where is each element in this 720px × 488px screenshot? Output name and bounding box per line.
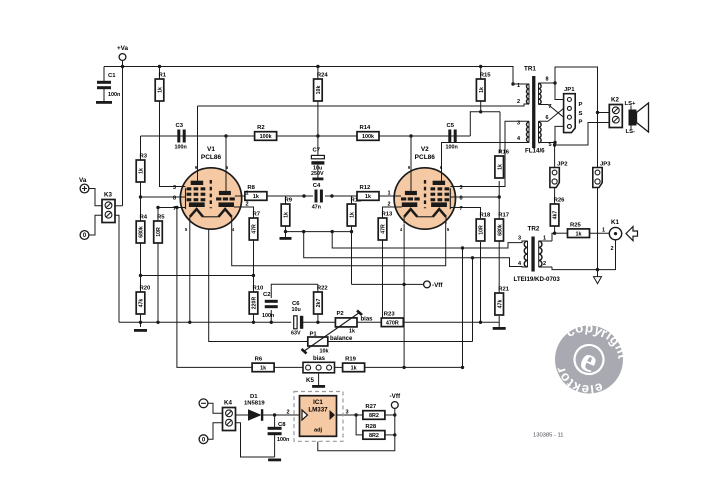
svg-text:R19: R19 bbox=[345, 357, 357, 363]
svg-text:+Va: +Va bbox=[117, 45, 129, 52]
svg-text:-Vff: -Vff bbox=[432, 282, 443, 289]
svg-text:R16: R16 bbox=[498, 150, 510, 156]
svg-text:3: 3 bbox=[517, 121, 520, 127]
svg-text:R26: R26 bbox=[554, 198, 566, 204]
svg-text:6: 6 bbox=[546, 115, 549, 121]
svg-text:PCL86: PCL86 bbox=[201, 154, 222, 161]
svg-text:2k7: 2k7 bbox=[316, 299, 322, 308]
svg-text:K5: K5 bbox=[306, 377, 314, 384]
svg-text:bias: bias bbox=[361, 317, 374, 323]
svg-text:K2: K2 bbox=[611, 97, 619, 104]
svg-text:R5: R5 bbox=[157, 215, 165, 221]
svg-text:10u: 10u bbox=[292, 307, 301, 313]
svg-text:R8: R8 bbox=[247, 185, 255, 191]
svg-text:1k: 1k bbox=[479, 87, 485, 93]
svg-text:R18: R18 bbox=[480, 213, 492, 219]
svg-text:63V: 63V bbox=[291, 331, 301, 337]
svg-text:1: 1 bbox=[517, 83, 520, 89]
svg-text:V2: V2 bbox=[421, 146, 429, 153]
svg-text:R2: R2 bbox=[257, 125, 265, 131]
svg-text:R25: R25 bbox=[570, 222, 582, 228]
svg-text:P1: P1 bbox=[310, 332, 318, 338]
svg-text:JP2: JP2 bbox=[557, 162, 568, 168]
svg-text:1k: 1k bbox=[351, 366, 357, 372]
svg-text:3: 3 bbox=[460, 185, 463, 191]
svg-text:2: 2 bbox=[286, 410, 289, 416]
svg-text:8: 8 bbox=[546, 77, 549, 83]
svg-text:1: 1 bbox=[387, 191, 390, 197]
svg-text:1k: 1k bbox=[260, 366, 266, 372]
svg-text:-Vff: -Vff bbox=[390, 393, 401, 400]
svg-text:1: 1 bbox=[543, 236, 546, 242]
svg-text:7: 7 bbox=[173, 206, 176, 212]
svg-text:R9: R9 bbox=[285, 198, 293, 204]
svg-text:1N5819: 1N5819 bbox=[244, 401, 265, 407]
svg-text:680k: 680k bbox=[139, 226, 145, 238]
svg-text:LS+: LS+ bbox=[625, 101, 637, 107]
svg-text:8: 8 bbox=[460, 196, 463, 202]
svg-text:100n: 100n bbox=[277, 437, 289, 443]
svg-text:R4: R4 bbox=[140, 215, 148, 221]
svg-text:JP1: JP1 bbox=[564, 87, 575, 93]
svg-text:1: 1 bbox=[602, 228, 605, 234]
svg-text:P: P bbox=[579, 102, 583, 108]
svg-text:2: 2 bbox=[246, 202, 249, 208]
svg-text:R15: R15 bbox=[480, 73, 492, 79]
svg-text:8: 8 bbox=[173, 196, 176, 202]
svg-text:1k: 1k bbox=[253, 194, 259, 200]
svg-text:R6: R6 bbox=[255, 357, 263, 363]
svg-text:1k: 1k bbox=[497, 164, 503, 170]
svg-text:FL14/6: FL14/6 bbox=[525, 148, 545, 155]
svg-text:R12: R12 bbox=[360, 185, 372, 191]
svg-text:1k: 1k bbox=[365, 194, 371, 200]
svg-text:C1: C1 bbox=[108, 73, 116, 79]
svg-text:2: 2 bbox=[517, 99, 520, 105]
svg-text:680k: 680k bbox=[497, 224, 503, 236]
svg-text:IC1: IC1 bbox=[313, 399, 323, 406]
svg-text:1k: 1k bbox=[349, 329, 355, 335]
svg-text:1k: 1k bbox=[284, 212, 290, 218]
svg-text:adj: adj bbox=[314, 428, 323, 434]
svg-text:4k7: 4k7 bbox=[553, 211, 559, 220]
svg-text:1: 1 bbox=[246, 191, 249, 197]
svg-text:5: 5 bbox=[549, 142, 552, 148]
svg-text:47R: 47R bbox=[252, 224, 258, 234]
svg-text:C5: C5 bbox=[447, 123, 455, 129]
svg-text:220R: 220R bbox=[252, 297, 258, 310]
svg-text:P2: P2 bbox=[337, 311, 345, 317]
svg-text:R20: R20 bbox=[140, 286, 152, 292]
svg-text:100k: 100k bbox=[260, 134, 272, 140]
svg-text:47k: 47k bbox=[497, 300, 503, 309]
svg-text:R22: R22 bbox=[317, 286, 329, 292]
svg-text:R17: R17 bbox=[498, 213, 510, 219]
svg-text:C7: C7 bbox=[313, 148, 321, 154]
svg-text:V1: V1 bbox=[207, 146, 215, 153]
svg-text:7: 7 bbox=[460, 206, 463, 212]
svg-text:K4: K4 bbox=[224, 400, 232, 407]
svg-text:C2: C2 bbox=[263, 292, 271, 298]
svg-text:C4: C4 bbox=[313, 183, 321, 189]
svg-text:130385 - 11: 130385 - 11 bbox=[533, 433, 564, 439]
svg-text:10R: 10R bbox=[156, 227, 162, 237]
svg-text:LM337: LM337 bbox=[308, 407, 328, 414]
svg-text:R10: R10 bbox=[253, 286, 265, 292]
svg-text:10k: 10k bbox=[316, 86, 322, 95]
svg-text:R24: R24 bbox=[317, 73, 329, 79]
svg-text:TR2: TR2 bbox=[528, 226, 540, 233]
svg-text:LS-: LS- bbox=[626, 129, 636, 135]
svg-text:8R2: 8R2 bbox=[369, 433, 379, 439]
svg-text:R7: R7 bbox=[253, 212, 261, 218]
svg-text:3: 3 bbox=[173, 185, 176, 191]
svg-text:47R: 47R bbox=[381, 224, 387, 234]
svg-text:100n: 100n bbox=[446, 145, 458, 151]
svg-text:8R2: 8R2 bbox=[369, 413, 379, 419]
svg-text:47k: 47k bbox=[139, 299, 145, 308]
svg-text:100n: 100n bbox=[262, 313, 274, 319]
svg-text:R14: R14 bbox=[360, 125, 372, 131]
svg-text:100n: 100n bbox=[108, 92, 120, 98]
svg-text:R1: R1 bbox=[159, 73, 167, 79]
svg-text:balance: balance bbox=[330, 336, 353, 342]
svg-text:R23: R23 bbox=[384, 312, 396, 318]
svg-text:7: 7 bbox=[549, 104, 552, 110]
svg-text:10k: 10k bbox=[320, 349, 329, 355]
svg-text:PCL86: PCL86 bbox=[415, 154, 436, 161]
svg-text:C8: C8 bbox=[278, 422, 286, 428]
svg-text:D1: D1 bbox=[250, 394, 258, 400]
svg-text:K3: K3 bbox=[104, 192, 112, 199]
svg-text:2: 2 bbox=[387, 202, 390, 208]
svg-text:250V: 250V bbox=[311, 171, 324, 177]
svg-text:10R: 10R bbox=[479, 225, 485, 235]
svg-text:Va: Va bbox=[79, 177, 87, 184]
svg-text:R3: R3 bbox=[140, 154, 148, 160]
svg-text:470R: 470R bbox=[386, 321, 399, 327]
svg-text:R13: R13 bbox=[382, 212, 394, 218]
svg-text:1k: 1k bbox=[158, 87, 164, 93]
svg-text:JP3: JP3 bbox=[600, 162, 611, 168]
svg-text:R21: R21 bbox=[498, 287, 510, 293]
svg-text:K1: K1 bbox=[611, 219, 619, 226]
svg-text:2: 2 bbox=[611, 246, 614, 252]
svg-text:R27: R27 bbox=[365, 404, 377, 410]
svg-text:bias: bias bbox=[313, 356, 326, 362]
svg-text:LTEI19/KD-0703: LTEI19/KD-0703 bbox=[514, 276, 561, 283]
svg-text:1k: 1k bbox=[350, 212, 356, 218]
svg-text:S: S bbox=[579, 111, 583, 117]
svg-text:1k: 1k bbox=[139, 168, 145, 174]
svg-text:3: 3 bbox=[518, 236, 521, 242]
svg-text:C3: C3 bbox=[176, 123, 184, 129]
svg-text:100n: 100n bbox=[175, 145, 187, 151]
svg-text:3: 3 bbox=[345, 410, 348, 416]
svg-text:2: 2 bbox=[543, 261, 546, 267]
svg-text:R28: R28 bbox=[365, 424, 377, 430]
svg-text:1k: 1k bbox=[576, 231, 582, 237]
svg-text:P: P bbox=[579, 120, 583, 126]
svg-text:47n: 47n bbox=[312, 205, 321, 211]
svg-text:TR1: TR1 bbox=[524, 66, 536, 73]
svg-text:100k: 100k bbox=[362, 134, 374, 140]
